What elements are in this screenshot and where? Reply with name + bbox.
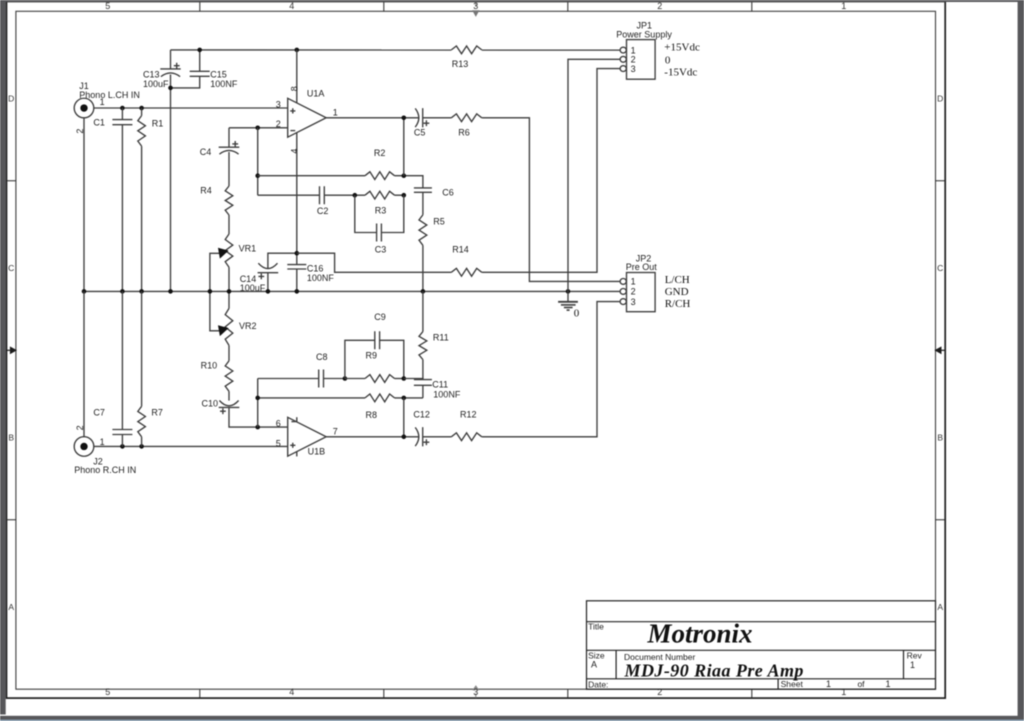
wire C8 row	[258, 378, 345, 380]
svg-text:5: 5	[105, 1, 110, 11]
wire output node to R2	[403, 118, 405, 176]
svg-text:C12: C12	[413, 410, 430, 420]
svg-text:5: 5	[105, 687, 110, 697]
node output/C5	[402, 116, 407, 121]
svg-text:R12: R12	[460, 410, 477, 420]
svg-text:C: C	[8, 263, 14, 273]
wire R8 node down to output	[403, 398, 405, 437]
title block	[587, 601, 936, 689]
svg-text:+15Vdc: +15Vdc	[664, 41, 700, 53]
U1A labels	[276, 86, 338, 153]
window edge bottom highlight line	[0, 720, 1024, 721]
svg-text:R7: R7	[151, 407, 163, 417]
wire J1 pin1 to U1A pin3	[94, 107, 288, 109]
wire J1 pin2 down to gnd bus	[83, 118, 85, 292]
svg-text:Motronix: Motronix	[646, 619, 752, 649]
connector JP2	[620, 273, 655, 312]
svg-text:D: D	[937, 94, 943, 104]
rail junctions	[197, 48, 202, 53]
window edge left strip	[0, 0, 6, 715]
svg-text:Power Supply: Power Supply	[616, 30, 672, 40]
resistor R8	[365, 396, 395, 399]
capacitor C12 (polarized, series)	[415, 427, 429, 446]
net names output	[665, 274, 691, 310]
node junctions on J1 wire	[120, 106, 125, 111]
svg-text:Phono R.CH IN: Phono R.CH IN	[74, 465, 136, 475]
node pin4/C16	[295, 251, 300, 256]
wire R2 row	[258, 176, 423, 188]
svg-text:A: A	[591, 660, 597, 670]
node output/C12	[402, 435, 407, 440]
junction C13/C15 bottom	[168, 86, 173, 91]
resistor R12	[451, 435, 482, 438]
svg-text:Title: Title	[588, 621, 604, 631]
resistor R10	[225, 345, 233, 400]
svg-text:100NF: 100NF	[307, 273, 335, 283]
+15V rail wire	[171, 49, 621, 51]
capacitor C5 (polarized, series)	[415, 108, 429, 127]
svg-text:Date:: Date:	[588, 680, 608, 690]
svg-text:VR2: VR2	[239, 321, 257, 331]
svg-text:3: 3	[473, 1, 478, 11]
potentiometer VR2	[225, 291, 233, 345]
svg-text:D: D	[8, 94, 14, 104]
junction pin2/feedback	[255, 126, 260, 131]
svg-text:4: 4	[289, 1, 294, 11]
svg-text:B: B	[8, 432, 14, 442]
svg-text:C15: C15	[210, 69, 227, 79]
svg-text:1: 1	[910, 660, 915, 670]
svg-text:C11: C11	[432, 379, 448, 389]
svg-text:C10: C10	[202, 398, 219, 408]
feedback left vertical wire	[257, 128, 259, 195]
wire pin4 node to R14 to -15V riser	[297, 69, 620, 273]
resistor R7	[138, 291, 146, 446]
svg-text:U1B: U1B	[308, 446, 326, 456]
svg-text:3: 3	[473, 687, 478, 697]
node R2 left	[255, 173, 260, 178]
svg-text:C7: C7	[93, 407, 105, 417]
node C8/R9	[343, 376, 348, 381]
svg-text:3: 3	[631, 64, 636, 74]
capacitor C9 parallel loop	[345, 331, 404, 378]
svg-text:1: 1	[841, 1, 846, 11]
svg-text:2: 2	[657, 1, 662, 11]
capacitor C7	[112, 291, 132, 446]
svg-text:A: A	[937, 602, 943, 612]
J2 labels	[74, 425, 136, 475]
potentiometer VR1	[225, 234, 233, 291]
svg-text:C1: C1	[93, 117, 105, 127]
node R2 right / output drop	[402, 173, 407, 178]
svg-text:VR1: VR1	[239, 243, 257, 253]
svg-text:1: 1	[841, 687, 846, 697]
wire J2 pin1 to U1B pin5	[94, 445, 288, 447]
capacitor C2	[320, 186, 325, 204]
svg-text:0: 0	[665, 54, 671, 66]
wire C2/R3 row	[258, 194, 404, 196]
svg-text:3: 3	[631, 297, 636, 307]
svg-text:2: 2	[657, 687, 662, 697]
resistor R13	[451, 48, 482, 51]
svg-text:U1A: U1A	[307, 89, 325, 99]
svg-text:R6: R6	[458, 127, 470, 137]
capacitor C14 (polarized)	[258, 253, 297, 291]
title block captions	[588, 621, 922, 689]
window edge top strip	[0, 0, 1024, 2]
svg-text:100uF: 100uF	[143, 79, 169, 89]
svg-text:3: 3	[276, 99, 281, 109]
svg-text:C6: C6	[442, 187, 454, 197]
svg-text:R8: R8	[366, 410, 378, 420]
svg-text:C: C	[937, 263, 943, 273]
wire R9 node to C11 top	[404, 379, 423, 380]
svg-text:R3: R3	[375, 205, 387, 215]
svg-text:-15Vdc: -15Vdc	[664, 67, 697, 79]
svg-text:R2: R2	[374, 148, 386, 158]
svg-text:R5: R5	[433, 217, 445, 227]
resistor R6	[451, 116, 482, 119]
ground symbol 0	[558, 291, 578, 310]
svg-text:Sheet: Sheet	[781, 679, 804, 689]
resistor R4	[225, 186, 233, 234]
svg-text:100NF: 100NF	[433, 390, 461, 400]
wire U1A output	[326, 117, 419, 119]
resistor R9	[365, 377, 395, 380]
svg-text:B: B	[937, 432, 943, 442]
svg-text:1: 1	[631, 277, 636, 287]
svg-text:1: 1	[100, 97, 105, 107]
wire U1B output	[326, 436, 419, 438]
svg-text:C3: C3	[375, 245, 387, 255]
svg-text:Rev: Rev	[907, 650, 923, 660]
wire C5 to R6 to JP2 pin1	[423, 118, 621, 282]
svg-text:R1: R1	[152, 118, 164, 128]
svg-text:0: 0	[574, 308, 580, 320]
svg-text:100NF: 100NF	[210, 79, 238, 89]
resistor R5	[419, 215, 427, 292]
capacitor C10 (polarized)	[219, 401, 288, 428]
svg-text:R4: R4	[200, 186, 212, 196]
JP2 labels	[626, 253, 658, 307]
ground bus wire	[84, 290, 620, 292]
svg-text:5: 5	[276, 438, 281, 448]
svg-text:Pre Out: Pre Out	[626, 262, 658, 272]
svg-text:2: 2	[631, 287, 636, 297]
capacitor C3 parallel loop	[355, 195, 404, 241]
op-amp U1A	[288, 50, 327, 253]
svg-text:L/CH: L/CH	[665, 274, 690, 286]
wire J2 pin2 up to gnd bus	[83, 291, 85, 436]
capacitor C16	[287, 253, 306, 291]
junctions on J2 wire	[120, 444, 125, 449]
connector J2	[74, 437, 94, 457]
capacitor C4 (polarized)	[219, 128, 240, 186]
nodes R3	[353, 193, 358, 198]
svg-text:A: A	[8, 602, 14, 612]
wire U1A pin2 to C4	[229, 127, 288, 129]
svg-text:4: 4	[289, 149, 299, 154]
svg-text:R14: R14	[452, 245, 469, 255]
svg-text:1: 1	[100, 437, 105, 447]
JP1 labels	[616, 21, 672, 74]
resistor R11	[419, 291, 427, 379]
wire C12 to R12 to JP2 pin3	[423, 302, 621, 437]
svg-text:R11: R11	[433, 333, 449, 343]
svg-text:MDJ-90 Riaa Pre Amp: MDJ-90 Riaa Pre Amp	[624, 661, 804, 681]
svg-text:1: 1	[885, 679, 890, 689]
svg-text:C16: C16	[307, 263, 324, 273]
svg-text:Phono L.CH IN: Phono L.CH IN	[79, 90, 140, 100]
capacitor C15	[171, 50, 210, 88]
svg-text:C9: C9	[374, 312, 386, 322]
svg-text:C2: C2	[317, 206, 329, 216]
capacitor C8	[319, 370, 324, 388]
svg-text:7: 7	[333, 427, 338, 437]
J1 labels	[75, 81, 140, 133]
window edge bottom strip	[0, 716, 1024, 720]
capacitor C13 (polarized)	[160, 50, 180, 292]
svg-text:6: 6	[276, 418, 281, 428]
svg-text:4: 4	[289, 687, 294, 697]
feedback left vertical (U1B)	[257, 379, 259, 428]
capacitor C1	[112, 108, 132, 291]
node R9 right	[402, 376, 407, 381]
svg-text:1: 1	[333, 108, 338, 118]
resistor R1	[138, 108, 146, 291]
svg-text:GND: GND	[665, 286, 689, 298]
svg-text:R/CH: R/CH	[665, 298, 691, 310]
svg-text:C5: C5	[414, 127, 426, 137]
svg-text:R10: R10	[201, 361, 218, 371]
svg-text:R13: R13	[452, 59, 469, 69]
svg-text:C8: C8	[316, 352, 328, 362]
resistor R3	[365, 194, 395, 197]
svg-text:R9: R9	[366, 351, 378, 361]
bus junctions	[82, 289, 87, 294]
svg-text:8: 8	[289, 86, 299, 91]
op-amp U1B	[288, 417, 327, 456]
U1B labels	[276, 418, 338, 456]
resistor R2	[365, 174, 395, 177]
net names power	[664, 41, 700, 78]
capacitor C6	[414, 188, 432, 215]
connector JP1	[620, 40, 655, 80]
svg-text:1: 1	[826, 679, 831, 689]
svg-text:of: of	[857, 679, 865, 689]
wire R8 row	[258, 397, 423, 399]
capacitor C11	[414, 380, 432, 398]
wire JP1 pin2 to gnd	[568, 59, 620, 291]
window edge right strip	[1018, 0, 1024, 717]
svg-text:C13: C13	[143, 69, 160, 79]
node pin6/C10 junction	[255, 425, 260, 430]
nodes R8	[255, 396, 260, 401]
resistor R14	[451, 271, 482, 274]
connector J1	[74, 98, 94, 118]
svg-text:C4: C4	[200, 147, 212, 157]
